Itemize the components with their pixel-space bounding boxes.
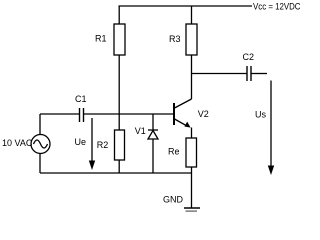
wire C2 out — [252, 73, 268, 75]
svg-text:C1: C1 — [75, 94, 87, 104]
svg-text:GND: GND — [163, 194, 184, 204]
wire collector up — [191, 74, 193, 100]
wire emitter down — [191, 128, 193, 139]
resistor Re — [186, 138, 197, 167]
diode V1 cathode bar — [148, 129, 158, 131]
svg-text:V1: V1 — [135, 126, 146, 136]
arrow Us line — [270, 81, 272, 168]
svg-text:V2: V2 — [198, 109, 209, 119]
transistor V2 collector diagonal — [175, 99, 192, 108]
svg-text:Us: Us — [255, 110, 266, 120]
svg-text:Vcc = 12VDC: Vcc = 12VDC — [253, 1, 301, 11]
wire source bottom — [39, 154, 41, 174]
transistor V2 emitter diagonal — [175, 119, 187, 126]
arrow Ue line — [91, 118, 93, 162]
source G1 sine — [34, 140, 48, 148]
transistor V2 emitter arrowhead — [184, 122, 190, 128]
svg-text:Ue: Ue — [75, 137, 87, 147]
arrow Ue head — [89, 161, 95, 171]
resistor R3 wire top — [191, 6, 193, 24]
wire bottom rail — [40, 172, 192, 174]
diode V1 wire bottom — [152, 139, 154, 173]
capacitor C1 — [79, 108, 81, 122]
diode V1 triangle — [148, 131, 158, 140]
resistor R3 wire bottom — [191, 55, 193, 74]
wire source top — [39, 114, 41, 135]
resistor R2 — [115, 130, 125, 160]
wire top rail — [119, 5, 253, 7]
wire collector node to C2 — [192, 73, 247, 75]
source G1 circle — [31, 135, 50, 154]
wire node to R2 — [118, 114, 120, 130]
capacitor C2 — [246, 66, 248, 81]
wire top-left to C1 — [40, 113, 79, 115]
wire R1 top — [118, 6, 120, 24]
diode V1 wire top — [152, 114, 154, 130]
wire R1 bottom to node — [118, 55, 120, 114]
svg-text:C2: C2 — [243, 52, 255, 62]
ground bar 2 — [186, 210, 198, 212]
arrow Us head — [268, 166, 274, 176]
wire Re to ground — [191, 167, 193, 208]
svg-text:Re: Re — [168, 146, 180, 156]
resistor R1 — [114, 24, 125, 55]
wire C1 to base — [84, 113, 174, 115]
ground bar 1 — [184, 207, 200, 209]
resistor R3 — [186, 24, 197, 55]
svg-text:R2: R2 — [97, 140, 109, 150]
transistor V2 base bar — [173, 103, 175, 125]
svg-text:R1: R1 — [95, 33, 107, 43]
svg-text:10 VAC: 10 VAC — [2, 138, 33, 148]
wire R2 bottom — [118, 160, 120, 173]
svg-text:R3: R3 — [169, 34, 181, 44]
